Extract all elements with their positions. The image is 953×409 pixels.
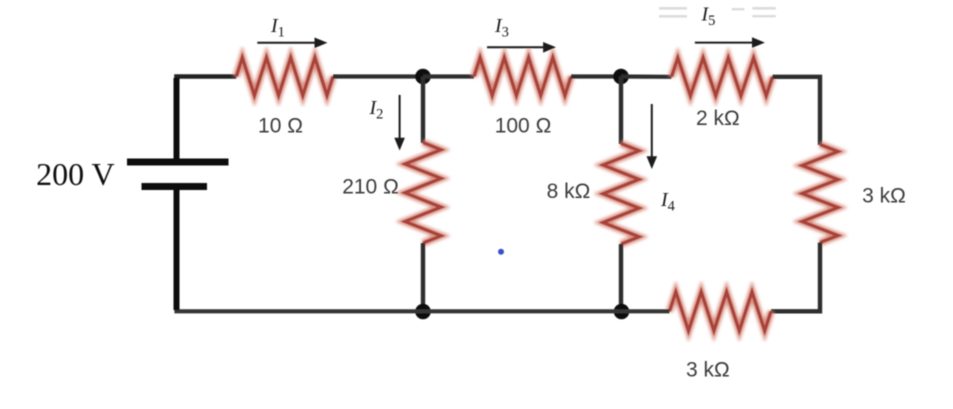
resistor R3 100 Ω xyxy=(474,58,571,96)
svg-text:200 V: 200 V xyxy=(36,156,115,192)
resistor R2 210 Ω xyxy=(405,143,441,244)
wire R4 down to node D xyxy=(619,244,623,312)
svg-text:I1: I1 xyxy=(270,15,285,41)
node C (bottom junction 1) xyxy=(415,304,431,320)
battery V1 long plate (+) xyxy=(127,159,229,166)
battery V1 short plate (-) xyxy=(142,183,208,190)
resistor R4 8 kΩ xyxy=(603,144,639,245)
wire R2 down to node C xyxy=(421,243,425,312)
wire node B down to R4 xyxy=(619,77,623,145)
svg-text:210 Ω: 210 Ω xyxy=(342,176,399,199)
current arrow I5 xyxy=(695,37,765,48)
wire node A to R3 xyxy=(423,74,474,78)
wire R3 to node B xyxy=(571,74,621,78)
wire R1 to node A xyxy=(333,74,423,78)
node A (top junction 1) xyxy=(415,69,431,85)
blue speck artifact xyxy=(498,249,504,255)
svg-text:I2: I2 xyxy=(369,97,384,123)
wire node B to R5 xyxy=(621,74,672,79)
wire battery+ to R1 (top-left corner) xyxy=(177,77,237,162)
wire node A down to R2 xyxy=(421,77,425,144)
resistor R6 3 kΩ right xyxy=(802,145,838,243)
current arrow I3 xyxy=(487,42,556,53)
resistor R7 3 kΩ bottom xyxy=(670,292,772,331)
svg-text:I5: I5 xyxy=(701,4,716,30)
svg-text:10 Ω: 10 Ω xyxy=(258,114,303,137)
svg-text:100 Ω: 100 Ω xyxy=(495,114,552,137)
battery V1 vertical lead bottom xyxy=(174,188,180,310)
ghost artifact dashes top right xyxy=(659,7,776,18)
bottom wire R7 to battery- (bottom-left corner) xyxy=(177,187,670,311)
node D (bottom junction 2) xyxy=(614,304,630,320)
svg-text:8 kΩ: 8 kΩ xyxy=(547,180,591,203)
svg-text:I4: I4 xyxy=(660,189,676,215)
svg-text:I3: I3 xyxy=(494,15,509,41)
svg-text:3 kΩ: 3 kΩ xyxy=(862,185,906,208)
current arrow I4 xyxy=(647,104,658,169)
node B (top junction 2) xyxy=(613,69,629,85)
wire R6 to bottom-right corner to R7 xyxy=(771,243,820,312)
resistor R1 10 Ω xyxy=(236,58,333,96)
svg-text:3 kΩ: 3 kΩ xyxy=(686,359,730,382)
resistor R5 2 kΩ xyxy=(672,58,773,96)
current arrow I2 xyxy=(394,95,405,151)
wire R5 to top-right corner down to R6 xyxy=(773,77,821,145)
current arrow I1 xyxy=(257,38,327,49)
svg-text:2 kΩ: 2 kΩ xyxy=(696,107,740,130)
battery V1 vertical lead top xyxy=(174,78,180,160)
